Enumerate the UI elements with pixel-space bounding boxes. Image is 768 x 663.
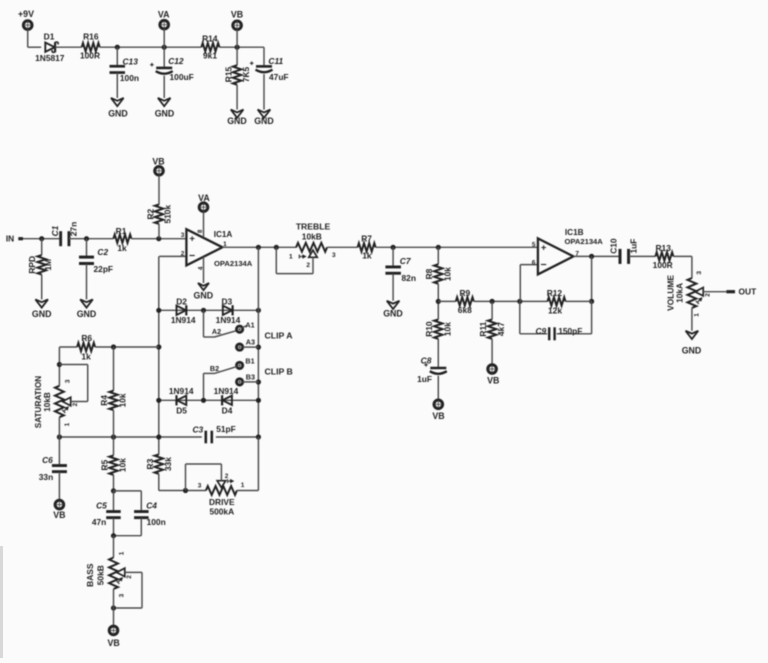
svg-text:82n: 82n	[402, 273, 416, 283]
svg-text:R12: R12	[547, 288, 563, 298]
svg-text:C3: C3	[192, 424, 203, 434]
svg-text:27n: 27n	[68, 222, 78, 236]
svg-text:R14: R14	[202, 33, 218, 43]
svg-text:4k7: 4k7	[496, 322, 506, 336]
svg-text:500kA: 500kA	[209, 507, 234, 517]
svg-text:10k: 10k	[442, 322, 452, 336]
svg-text:VB: VB	[53, 510, 65, 520]
svg-text:R1: R1	[116, 226, 127, 236]
svg-text:VB: VB	[231, 10, 243, 20]
svg-text:CLIP A: CLIP A	[265, 331, 294, 341]
svg-text:1: 1	[118, 551, 125, 555]
svg-text:10k: 10k	[443, 267, 453, 281]
svg-text:2: 2	[225, 473, 229, 480]
svg-text:OPA2134A: OPA2134A	[214, 259, 253, 268]
svg-text:GND: GND	[227, 116, 247, 126]
svg-text:+: +	[541, 242, 547, 253]
svg-text:R13: R13	[656, 243, 672, 253]
svg-text:1uF: 1uF	[629, 239, 639, 254]
svg-text:C4: C4	[146, 501, 157, 511]
svg-text:R5: R5	[100, 459, 110, 470]
svg-text:1k: 1k	[81, 351, 91, 361]
svg-text:33k: 33k	[163, 457, 173, 471]
svg-text:47n: 47n	[92, 517, 106, 527]
svg-text:GND: GND	[682, 345, 702, 355]
svg-text:A3: A3	[246, 338, 255, 347]
svg-text:33n: 33n	[39, 472, 53, 482]
svg-text:C13: C13	[123, 57, 139, 67]
svg-text:C2: C2	[97, 247, 108, 257]
svg-text:10kB: 10kB	[43, 392, 52, 412]
svg-text:C7: C7	[400, 256, 411, 266]
svg-text:TREBLE: TREBLE	[296, 221, 331, 231]
svg-text:3: 3	[696, 271, 703, 275]
svg-text:BASS: BASS	[85, 563, 95, 587]
svg-text:50kB: 50kB	[95, 565, 105, 585]
svg-text:C1: C1	[50, 225, 60, 236]
svg-text:10kA: 10kA	[675, 283, 685, 303]
svg-text:GND: GND	[155, 108, 175, 118]
svg-text:GND: GND	[32, 309, 52, 319]
svg-text:1k: 1k	[117, 243, 127, 253]
svg-text:R4: R4	[99, 395, 109, 406]
svg-text:OPA2134A: OPA2134A	[565, 237, 604, 246]
svg-text:C5: C5	[96, 501, 107, 511]
svg-text:10k: 10k	[117, 458, 127, 472]
svg-text:5: 5	[532, 241, 536, 248]
svg-text:3: 3	[181, 232, 185, 239]
svg-text:D3: D3	[221, 297, 232, 307]
svg-text:GND: GND	[108, 108, 128, 118]
svg-text:100R: 100R	[653, 260, 673, 270]
svg-text:150pF: 150pF	[558, 326, 582, 336]
svg-text:D2: D2	[176, 297, 187, 307]
svg-text:B3: B3	[246, 373, 255, 382]
svg-text:C8: C8	[421, 355, 432, 365]
svg-text:1: 1	[64, 422, 71, 426]
svg-text:2: 2	[306, 262, 310, 269]
svg-text:IC1A: IC1A	[214, 230, 233, 239]
svg-text:1N914: 1N914	[214, 386, 239, 396]
svg-text:3: 3	[198, 483, 202, 490]
svg-text:IN: IN	[6, 234, 14, 244]
svg-text:1k: 1k	[362, 251, 372, 261]
svg-text:IC1B: IC1B	[565, 228, 584, 237]
svg-text:−: −	[541, 259, 547, 271]
svg-text:C10: C10	[608, 238, 618, 254]
svg-text:510k: 510k	[163, 205, 173, 224]
svg-text:C12: C12	[168, 56, 184, 66]
svg-text:R10: R10	[424, 321, 434, 337]
svg-text:R2: R2	[146, 209, 156, 220]
svg-text:2: 2	[705, 293, 712, 297]
svg-text:1N5817: 1N5817	[35, 53, 65, 63]
svg-text:VA: VA	[198, 193, 210, 203]
svg-text:GND: GND	[77, 309, 97, 319]
svg-text:3: 3	[64, 379, 71, 383]
svg-text:1N914: 1N914	[169, 386, 194, 396]
svg-text:R8: R8	[424, 268, 434, 279]
svg-text:1uF: 1uF	[417, 374, 432, 384]
svg-text:C11: C11	[268, 56, 283, 66]
svg-text:C9: C9	[535, 326, 546, 336]
svg-text:1: 1	[241, 482, 245, 489]
svg-text:47uF: 47uF	[269, 72, 289, 82]
svg-text:GND: GND	[254, 116, 274, 126]
svg-text:1N914: 1N914	[216, 315, 241, 325]
svg-text:VB: VB	[152, 157, 164, 167]
svg-text:+: +	[189, 233, 195, 244]
svg-text:SATURATION: SATURATION	[34, 376, 43, 429]
svg-text:D1: D1	[44, 32, 55, 42]
svg-text:10k: 10k	[117, 393, 127, 407]
svg-text:R7: R7	[361, 234, 372, 244]
svg-text:D5: D5	[176, 406, 187, 416]
svg-text:R3: R3	[145, 458, 155, 469]
svg-text:B1: B1	[245, 357, 254, 366]
svg-text:VA: VA	[158, 9, 170, 19]
svg-text:1: 1	[289, 253, 293, 260]
svg-text:6k8: 6k8	[458, 305, 472, 315]
svg-text:12k: 12k	[548, 306, 562, 316]
svg-text:4: 4	[198, 266, 205, 270]
svg-text:VB: VB	[107, 638, 119, 648]
svg-text:GND: GND	[383, 309, 403, 319]
svg-text:9k1: 9k1	[203, 51, 217, 61]
svg-text:R16: R16	[83, 32, 99, 42]
svg-text:R9: R9	[459, 288, 470, 298]
svg-text:100R: 100R	[80, 51, 100, 61]
svg-text:−: −	[189, 250, 195, 262]
svg-text:100uF: 100uF	[170, 72, 194, 82]
svg-text:22pF: 22pF	[94, 264, 114, 274]
svg-text:GND: GND	[194, 290, 214, 300]
svg-text:3: 3	[118, 593, 125, 597]
svg-text:7K5: 7K5	[241, 66, 251, 82]
svg-text:3: 3	[332, 252, 336, 259]
svg-text:51pF: 51pF	[216, 424, 236, 434]
svg-text:RPD: RPD	[27, 256, 37, 274]
svg-text:100n: 100n	[120, 73, 139, 83]
svg-text:C6: C6	[42, 455, 53, 465]
svg-text:2: 2	[181, 251, 185, 258]
svg-text:VB: VB	[432, 411, 444, 421]
svg-text:R15: R15	[223, 66, 233, 82]
svg-text:CLIP B: CLIP B	[265, 366, 293, 376]
svg-text:D4: D4	[222, 406, 233, 416]
svg-text:1M: 1M	[43, 259, 53, 271]
svg-text:R11: R11	[478, 321, 488, 336]
svg-text:1: 1	[693, 313, 700, 317]
svg-text:10kB: 10kB	[302, 231, 322, 241]
svg-text:8: 8	[197, 229, 204, 233]
svg-text:100n: 100n	[147, 517, 166, 527]
svg-text:1N914: 1N914	[171, 315, 196, 325]
svg-text:VB: VB	[487, 375, 499, 385]
svg-text:2: 2	[72, 402, 79, 406]
svg-text:OUT: OUT	[739, 287, 758, 297]
svg-text:+9V: +9V	[18, 9, 34, 19]
svg-text:B2: B2	[210, 364, 219, 373]
svg-text:A1: A1	[245, 321, 254, 330]
svg-text:R6: R6	[81, 333, 92, 343]
svg-text:6: 6	[532, 259, 536, 266]
svg-text:A2: A2	[212, 327, 221, 336]
svg-text:2: 2	[126, 575, 133, 579]
